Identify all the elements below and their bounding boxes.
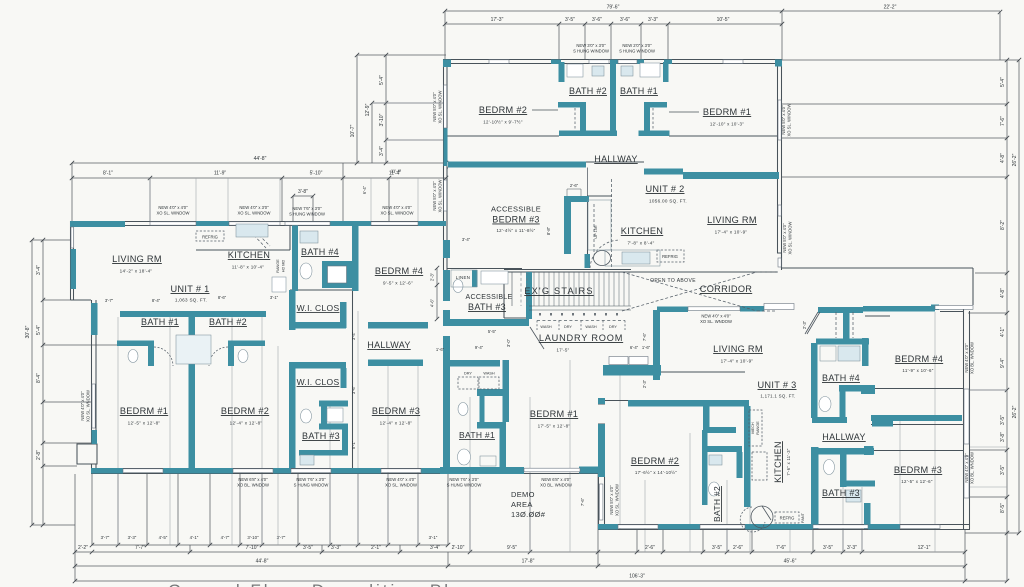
svg-text:NEW 7'6" x 3'0": NEW 7'6" x 3'0" — [449, 477, 479, 482]
unit3 south wall teal segments — [598, 524, 618, 530]
svg-text:3'-1": 3'-1" — [270, 295, 279, 300]
svg-text:W.I. CLOS: W.I. CLOS — [297, 303, 340, 313]
unit1 bath4 fixtures — [300, 231, 318, 243]
svg-text:S HUNG WNDOW: S HUNG WNDOW — [294, 483, 329, 488]
svg-text:XO SL. WINDOW: XO SL. WINDOW — [787, 103, 792, 136]
svg-text:26'-2": 26'-2" — [1012, 153, 1018, 166]
svg-text:NEW 4'0" x 4'0": NEW 4'0" x 4'0" — [386, 477, 416, 482]
svg-text:4'-5": 4'-5" — [159, 535, 168, 540]
svg-text:10'-7": 10'-7" — [350, 124, 356, 137]
rotated window labels — [80, 90, 975, 522]
unit2 hallway lower edge line — [447, 162, 644, 196]
svg-text:3'-6": 3'-6" — [592, 17, 602, 23]
unit3 entry door leaves — [609, 357, 628, 365]
svg-text:17'-8": 17'-8" — [522, 559, 535, 565]
unit3 bath4 walls — [843, 311, 850, 340]
accessible bath fixtures — [453, 280, 463, 293]
svg-text:NEW 7'6" x 3'0": NEW 7'6" x 3'0" — [292, 206, 322, 211]
window slots unit2 east wall — [778, 100, 781, 140]
svg-text:3'-5": 3'-5" — [712, 545, 722, 551]
svg-text:5'-1": 5'-1" — [351, 440, 356, 449]
svg-text:BEDRM #1: BEDRM #1 — [120, 406, 168, 416]
mech/range chase unit3 — [749, 410, 762, 446]
svg-text:BEDRM #4: BEDRM #4 — [375, 266, 423, 276]
bottom mini chain texts — [101, 535, 438, 540]
unit3 west wall lower thin — [599, 477, 605, 529]
unit1 baths top wall — [120, 311, 266, 317]
svg-text:PANT: PANT — [801, 512, 805, 523]
unit3 bedrm2 north wall — [628, 400, 749, 407]
svg-text:BATH #1: BATH #1 — [459, 430, 495, 440]
svg-text:4'-8": 4'-8" — [1000, 288, 1006, 298]
svg-text:NEW 5'0" x 4'0": NEW 5'0" x 4'0" — [609, 485, 614, 515]
svg-text:14'-2" x 18'-4": 14'-2" x 18'-4" — [120, 269, 153, 274]
svg-text:2'-1": 2'-1" — [371, 545, 381, 551]
svg-text:NEW 5'0" x 4'0": NEW 5'0" x 4'0" — [432, 92, 437, 122]
svg-text:NEW 4'0" x 4'0": NEW 4'0" x 4'0" — [382, 205, 412, 210]
unit1 bedroom center wall — [189, 311, 196, 468]
svg-text:7'-10": 7'-10" — [246, 545, 259, 551]
svg-text:3'-5": 3'-5" — [565, 17, 575, 23]
svg-text:MECH: MECH — [751, 422, 755, 433]
unit2 left side chains — [357, 55, 446, 163]
svg-text:XO BL. WNDOW: XO BL. WNDOW — [540, 483, 572, 488]
window slots unit3 east wall — [964, 389, 969, 444]
unit1 kitchen counter — [196, 226, 290, 250]
svg-text:3'-4": 3'-4" — [351, 331, 356, 340]
svg-text:12'-9": 12'-9" — [365, 103, 371, 116]
svg-text:BATH #1: BATH #1 — [141, 317, 179, 327]
accessible bedrm3 south line — [447, 268, 522, 270]
construction extension lines crossing plan — [118, 311, 935, 552]
svg-text:DRY: DRY — [564, 325, 572, 329]
svg-text:XO BL. WNDOW: XO BL. WNDOW — [970, 452, 975, 484]
svg-text:17'-5": 17'-5" — [557, 348, 570, 353]
unit1 west wall upper — [71, 221, 92, 300]
window slot unit2 west wall — [444, 85, 447, 128]
svg-text:8'-4": 8'-4" — [36, 373, 42, 383]
svg-text:11'-8" x 10'-4": 11'-8" x 10'-4" — [232, 265, 264, 270]
unit1 bath window mini chain 3'-8" — [293, 196, 313, 222]
svg-text:BEDRM #2: BEDRM #2 — [479, 105, 527, 115]
top dimension chain overall 79'-6" and 22'-2" — [445, 11, 1000, 60]
unit3 bath2 walls — [702, 430, 708, 505]
unit1 fireplace box — [77, 444, 97, 464]
svg-text:7'-6" x 11'-3": 7'-6" x 11'-3" — [786, 448, 791, 476]
svg-text:3'-4": 3'-4" — [36, 265, 42, 275]
pantry dashed unit3 — [752, 452, 767, 480]
unit1 top chain 44'-8" — [72, 163, 446, 225]
dry wash boxes — [458, 377, 499, 389]
svg-text:BEDRM #2: BEDRM #2 — [221, 406, 269, 416]
svg-text:NEW 6'8" x 4'0": NEW 6'8" x 4'0" — [541, 477, 571, 482]
svg-text:BEDRM #3: BEDRM #3 — [372, 406, 420, 416]
svg-text:UNIT # 1: UNIT # 1 — [171, 284, 210, 294]
svg-text:XO SL. WNDOW: XO SL. WNDOW — [700, 319, 732, 324]
bottom main chain B — [75, 474, 965, 552]
svg-text:S HUNG WINDOW: S HUNG WINDOW — [573, 49, 609, 54]
svg-text:4'-7": 4'-7" — [221, 535, 230, 540]
unit2 kitchen door swing dashed — [590, 240, 620, 268]
svg-text:ACCESSIBLE: ACCESSIBLE — [466, 294, 513, 301]
svg-text:5'-4": 5'-4" — [1000, 77, 1006, 87]
svg-text:6'-4": 6'-4" — [630, 345, 639, 350]
svg-text:NEW 7'6" x 3'0": NEW 7'6" x 3'0" — [296, 477, 326, 482]
svg-text:DRY: DRY — [464, 372, 472, 376]
svg-text:5'-10": 5'-10" — [310, 171, 323, 177]
unit2 kitchen oval — [594, 251, 611, 266]
svg-text:XO SL. WINDOW: XO SL. WINDOW — [438, 90, 443, 123]
svg-text:NEW 3'0" x 3'0": NEW 3'0" x 3'0" — [576, 43, 606, 48]
svg-text:UNIT # 3: UNIT # 3 — [758, 380, 797, 390]
corridor top line left part — [504, 271, 777, 273]
unit2 bath1 alcove walls — [644, 102, 667, 108]
washer dryer boxes laundry — [537, 320, 625, 322]
svg-text:BATH #2: BATH #2 — [569, 86, 607, 96]
stairs mini dim chain — [567, 189, 581, 196]
svg-text:11'-9" x 10'-6": 11'-9" x 10'-6" — [902, 368, 933, 373]
svg-text:8'-8": 8'-8" — [546, 226, 551, 235]
svg-text:9'-5": 9'-5" — [507, 545, 517, 551]
svg-text:45'-6": 45'-6" — [784, 559, 797, 565]
svg-text:REFRG: REFRG — [780, 516, 795, 521]
svg-text:3'-5": 3'-5" — [1000, 465, 1006, 475]
svg-text:7'-6": 7'-6" — [642, 332, 647, 341]
svg-text:3'-10": 3'-10" — [247, 535, 259, 540]
refrig unit3 — [775, 512, 799, 523]
svg-text:4'-6": 4'-6" — [430, 298, 435, 307]
svg-text:3'-4": 3'-4" — [462, 237, 471, 242]
svg-text:NEW 5'0" x 4'0": NEW 5'0" x 4'0" — [782, 223, 787, 253]
svg-text:17'-4" x 10'-9": 17'-4" x 10'-9" — [721, 359, 754, 364]
svg-text:12'-5" x 12'-6": 12'-5" x 12'-6" — [901, 479, 933, 484]
unit2 kitchen counters thin — [588, 200, 611, 250]
bath door arcs unit2 top — [575, 108, 653, 130]
unit2 bedroom/hall wall — [447, 135, 777, 137]
svg-text:3'-7": 3'-7" — [101, 535, 110, 540]
bottom chain C — [75, 552, 965, 566]
unit3 entry door swing — [805, 312, 820, 334]
unit1 south wall teal segments — [91, 468, 123, 474]
svg-text:8'-2": 8'-2" — [1000, 220, 1006, 230]
svg-text:79'-6": 79'-6" — [607, 5, 620, 11]
unit2 bath2 fixtures — [567, 64, 583, 77]
demolished wall dashed (stairs/kitchen) — [611, 179, 613, 268]
svg-text:2'-10": 2'-10" — [452, 545, 465, 551]
window slot unit1 west wall — [92, 384, 95, 428]
svg-text:RANGE: RANGE — [276, 259, 280, 273]
svg-text:HD MD: HD MD — [282, 260, 286, 273]
svg-text:LIVING RM: LIVING RM — [112, 254, 162, 264]
svg-text:NEW 6'8" x 4'0": NEW 6'8" x 4'0" — [238, 477, 268, 482]
svg-text:3'-5": 3'-5" — [823, 545, 833, 551]
svg-text:BEDRM #1: BEDRM #1 — [530, 409, 578, 419]
unit3 bedrm4 shelf — [865, 315, 890, 317]
label leader lines — [532, 110, 699, 196]
svg-text:3'-7": 3'-7" — [105, 298, 114, 303]
svg-text:NEW 4'0" x 4'0": NEW 4'0" x 4'0" — [964, 343, 969, 373]
svg-text:UP 15R: UP 15R — [594, 225, 598, 238]
svg-text:17'-3": 17'-3" — [491, 17, 504, 23]
unit3 entry junction wall — [603, 365, 661, 376]
unit3 hallway north wall — [839, 385, 875, 392]
unit3 bedrm4 closet bar — [871, 415, 962, 421]
svg-text:12'-4" x 12'-8": 12'-4" x 12'-8" — [230, 421, 263, 426]
svg-text:NEW 4'0" x 4'0": NEW 4'0" x 4'0" — [701, 314, 731, 319]
unit1 WI closet upper walls — [289, 290, 296, 330]
unit2 stairs shaft cap and west wall — [564, 196, 589, 202]
svg-text:LIVING RM: LIVING RM — [707, 215, 757, 225]
unit2 west wall teal segment — [444, 128, 448, 166]
stairs lower left teal wall — [526, 272, 532, 319]
svg-text:KITCHEN: KITCHEN — [773, 441, 783, 483]
svg-text:3'-8": 3'-8" — [298, 189, 308, 195]
svg-text:5'-4": 5'-4" — [379, 75, 385, 85]
svg-text:12'-4" x 12'-8": 12'-4" x 12'-8" — [380, 421, 413, 426]
svg-text:NEW 2'0" x 3'0": NEW 2'0" x 3'0" — [622, 43, 652, 48]
svg-text:3'-5": 3'-5" — [303, 545, 313, 551]
svg-text:S HUNG WINDOW: S HUNG WINDOW — [289, 212, 325, 217]
svg-text:22'-2": 22'-2" — [884, 5, 897, 11]
svg-text:S HUNG WNDOW: S HUNG WNDOW — [447, 483, 482, 488]
unit2 bath2 west wall — [559, 62, 565, 82]
svg-text:BATH #3: BATH #3 — [468, 302, 506, 312]
svg-text:7'-6": 7'-6" — [776, 545, 786, 551]
svg-text:106'-3": 106'-3" — [629, 574, 645, 580]
svg-text:2'-6": 2'-6" — [645, 545, 655, 551]
svg-text:W.I. CLOS: W.I. CLOS — [297, 377, 340, 387]
svg-text:XO BL. WNDOW: XO BL. WNDOW — [237, 483, 269, 488]
svg-text:XO BL. WNDOW: XO BL. WNDOW — [970, 342, 975, 374]
unit1 top wall double — [70, 222, 446, 226]
svg-text:XO SL. WNDOW: XO SL. WNDOW — [385, 483, 417, 488]
corridor top line right part — [782, 268, 973, 305]
unit1 kitchen cab dashed — [247, 228, 270, 248]
right vertical chains — [782, 60, 1019, 533]
middle bath1 fixtures — [458, 403, 468, 416]
svg-text:BEDRM #3: BEDRM #3 — [894, 465, 942, 475]
linen closet wall — [472, 270, 478, 287]
stairs outline — [504, 270, 631, 319]
svg-text:XO SL. WINDOW: XO SL. WINDOW — [788, 221, 793, 254]
window slots unit1 south wall — [123, 469, 163, 473]
unit3 bath3 west wall — [811, 343, 818, 418]
unit1 south wall double — [91, 469, 598, 474]
svg-text:NEW 4'0" x 4'0": NEW 4'0" x 4'0" — [80, 391, 85, 421]
svg-text:1,171.1 SQ. FT.: 1,171.1 SQ. FT. — [760, 394, 795, 399]
svg-text:9'-4": 9'-4" — [475, 345, 484, 350]
unit1 bath1 alcove — [117, 341, 154, 347]
svg-text:HALLWAY: HALLWAY — [594, 154, 637, 164]
unit3 kitchen circle — [751, 506, 773, 528]
svg-text:4'-8": 4'-8" — [1000, 153, 1006, 163]
svg-text:2'-3": 2'-3" — [802, 320, 807, 329]
svg-text:WASH: WASH — [540, 325, 552, 329]
unit1 bath toilets — [128, 350, 138, 363]
refrig unit1 — [196, 231, 224, 241]
svg-text:BATH #4: BATH #4 — [822, 373, 860, 383]
svg-text:44'-8": 44'-8" — [254, 156, 267, 162]
svg-text:ACCESSIBLE: ACCESSIBLE — [491, 205, 541, 214]
unit3 bath4 fixtures — [820, 346, 836, 361]
svg-text:XO SL. WINDOW: XO SL. WINDOW — [438, 179, 443, 212]
svg-text:10'-5": 10'-5" — [717, 17, 730, 23]
access bath mini chain — [436, 268, 438, 319]
unit1 bath4 bottom — [298, 289, 352, 291]
unit3 bedrm4 closet line + bedrm3 north line — [871, 389, 963, 451]
unit2 bath1 fixtures — [621, 66, 633, 76]
unit2 hallway south wall segments — [448, 162, 586, 168]
svg-text:7'-7": 7'-7" — [135, 545, 145, 551]
unit2 west wall — [444, 59, 448, 270]
svg-text:WASH: WASH — [483, 372, 495, 376]
corridor south wall teal segments — [657, 307, 688, 313]
unit3 east wall double — [940, 306, 973, 529]
svg-text:8'-6": 8'-6" — [218, 295, 227, 300]
svg-text:12'-5" x 12'-8": 12'-5" x 12'-8" — [128, 421, 161, 426]
unit3 bath3 north walls — [815, 448, 874, 455]
laundry door swing — [530, 327, 544, 349]
svg-text:3'-10": 3'-10" — [379, 113, 385, 126]
svg-text:3'-6": 3'-6" — [351, 385, 356, 394]
stairs handrail dashed — [593, 204, 595, 252]
svg-text:4'-1": 4'-1" — [190, 535, 199, 540]
svg-text:LINEN: LINEN — [456, 275, 470, 280]
svg-text:3'-3": 3'-3" — [331, 545, 341, 551]
unit1 bath3 fixtures — [327, 408, 343, 422]
svg-text:6'-4": 6'-4" — [362, 185, 367, 194]
svg-text:Ground Floor Demolition Plan: Ground Floor Demolition Plan — [168, 581, 476, 587]
svg-text:8'-1": 8'-1" — [103, 171, 113, 177]
bath door arcs unit1 — [154, 347, 228, 366]
svg-text:7'-6": 7'-6" — [580, 497, 585, 506]
svg-text:17'-6½" x 14'-10½": 17'-6½" x 14'-10½" — [635, 470, 677, 475]
svg-text:17'-4" x 10'-9": 17'-4" x 10'-9" — [715, 230, 748, 235]
svg-text:3'-4": 3'-4" — [379, 146, 385, 156]
window slots unit3 south wall — [618, 525, 658, 529]
svg-text:BEDRM #3: BEDRM #3 — [492, 215, 539, 225]
unit3 kitchen west wall — [744, 406, 751, 507]
svg-text:12'-1": 12'-1" — [918, 545, 931, 551]
stair treads — [534, 273, 629, 307]
svg-text:DEMO: DEMO — [511, 490, 535, 499]
unit1 WI closet lower walls — [289, 362, 296, 402]
svg-text:11'-4": 11'-4" — [391, 169, 402, 174]
unit3 bath3 east wall lower — [864, 503, 871, 529]
svg-text:7'-8" x 8'-4": 7'-8" x 8'-4" — [627, 241, 654, 246]
svg-text:BATH #4: BATH #4 — [301, 247, 339, 257]
unit2 corridor door leaf — [764, 304, 794, 310]
svg-text:BEDRM #1: BEDRM #1 — [703, 107, 751, 117]
unit2 bath center wall — [610, 62, 616, 136]
unit3 bedrm2 closet walls — [703, 406, 710, 433]
svg-text:NEW 5'0" x 4'0": NEW 5'0" x 4'0" — [781, 105, 786, 135]
svg-text:EX'G STAIRS: EX'G STAIRS — [524, 286, 593, 296]
bedrm1 east wall — [598, 398, 605, 404]
svg-text:9'-5" x 12'-6": 9'-5" x 12'-6" — [383, 281, 413, 286]
unit2 top wall (double line) — [443, 60, 782, 64]
svg-text:BATH #3: BATH #3 — [822, 488, 860, 498]
unit1 west wall lower — [92, 300, 97, 468]
svg-text:KITCHEN: KITCHEN — [228, 250, 270, 260]
unit1 kitchen sink counter — [236, 224, 268, 237]
svg-text:BATH #1: BATH #1 — [620, 86, 658, 96]
unit1 west wall teal segments — [71, 249, 77, 289]
unit1 bath3 walls — [289, 402, 296, 468]
svg-text:XO SL. WINDOW: XO SL. WINDOW — [156, 211, 189, 216]
svg-text:3'-8": 3'-8" — [1000, 432, 1006, 442]
unit2 east wall — [778, 59, 782, 270]
unit3 bath3 fixtures — [824, 460, 835, 475]
svg-text:3'-0": 3'-0" — [506, 338, 511, 347]
svg-text:LAUNDRY ROOM: LAUNDRY ROOM — [539, 333, 623, 343]
svg-text:XO SL. WINDOW: XO SL. WINDOW — [380, 211, 413, 216]
window slots top wing — [489, 60, 509, 64]
svg-text:12'-4½" x 11'-8½": 12'-4½" x 11'-8½" — [496, 228, 535, 233]
svg-text:NEW 4'0" x 4'0": NEW 4'0" x 4'0" — [158, 205, 188, 210]
svg-text:2'-2": 2'-2" — [78, 545, 88, 551]
svg-text:REFRIG: REFRIG — [202, 235, 218, 240]
svg-text:3'-6": 3'-6" — [620, 17, 630, 23]
svg-text:3'-3": 3'-3" — [128, 535, 137, 540]
svg-text:3'-4": 3'-4" — [430, 545, 440, 551]
svg-text:2'-6": 2'-6" — [570, 183, 579, 188]
laundry east junction lines — [605, 372, 745, 401]
left vertical chains — [32, 240, 120, 525]
svg-text:13Ø.ØØ#: 13Ø.ØØ# — [511, 510, 546, 519]
unit1 hallway walls — [368, 322, 428, 329]
svg-text:BATH #3: BATH #3 — [302, 431, 340, 441]
unit1 north wall teal segments — [70, 221, 125, 227]
unit3 bath2 fixtures — [709, 455, 722, 465]
svg-text:HALLWAY: HALLWAY — [367, 340, 410, 350]
unit3 south wall double — [598, 525, 970, 530]
svg-text:1056.00 SQ. FT.: 1056.00 SQ. FT. — [649, 199, 687, 204]
svg-text:17'-5" x 12'-8": 17'-5" x 12'-8" — [538, 424, 571, 429]
svg-text:3'-1": 3'-1" — [429, 535, 438, 540]
unit2 NE corner wall — [775, 60, 782, 67]
bottom chain D — [75, 533, 1007, 581]
bedrm1 east door jambs — [598, 404, 605, 424]
svg-text:S HUNG WINDOW: S HUNG WINDOW — [619, 49, 655, 54]
top dimension chain segments — [445, 24, 782, 60]
svg-text:DRY: DRY — [609, 325, 617, 329]
svg-text:WASH: WASH — [585, 325, 597, 329]
svg-text:XO SL. WNDOW: XO SL. WNDOW — [86, 390, 91, 422]
svg-text:11'-9": 11'-9" — [214, 171, 227, 177]
svg-text:AREA: AREA — [511, 500, 533, 509]
unit1 bath4 shower inner — [328, 266, 347, 283]
svg-text:30'-8": 30'-8" — [25, 325, 31, 338]
svg-text:1'-6": 1'-6" — [642, 345, 651, 350]
open-to-above dashed X — [622, 272, 778, 311]
svg-text:7'-6": 7'-6" — [1000, 116, 1006, 126]
svg-text:NEW 4'0" x 4'0": NEW 4'0" x 4'0" — [964, 453, 969, 483]
svg-text:NEW 4'0" x 3'0": NEW 4'0" x 3'0" — [239, 205, 269, 210]
unit1 bath4 shower — [322, 261, 352, 288]
svg-text:LIVING RM: LIVING RM — [713, 344, 763, 354]
svg-text:2'-3": 2'-3" — [430, 272, 435, 281]
svg-text:5'-4": 5'-4" — [36, 325, 42, 335]
unit3 kitchen door swing dashed circle — [740, 507, 765, 532]
svg-text:12'-10" x 10'-3": 12'-10" x 10'-3" — [710, 122, 744, 127]
svg-text:12'-10½" x 9'-7½": 12'-10½" x 9'-7½" — [483, 120, 523, 125]
svg-text:2'-8": 2'-8" — [36, 450, 42, 460]
corridor top step — [777, 253, 782, 268]
svg-text:2'-3": 2'-3" — [642, 379, 647, 388]
unit2 accessible bedrm closet thin — [451, 270, 477, 287]
svg-text:BEDRM #2: BEDRM #2 — [631, 456, 679, 466]
